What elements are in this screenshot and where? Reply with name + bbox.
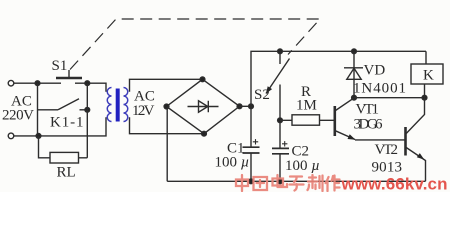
wire bottom rail left	[14, 117, 106, 136]
terminal top-left o	[8, 80, 14, 86]
svg-text:1M: 1M	[296, 98, 317, 114]
bridge rectifier diamond	[167, 79, 240, 133]
relay contact K1-1	[38, 99, 88, 110]
capacitor C1	[250, 106, 252, 181]
node bridge right vertex	[237, 104, 242, 109]
svg-text:3DG6: 3DG6	[354, 117, 384, 133]
relay coil K box	[425, 51, 427, 64]
terminal bottom-left o	[8, 133, 14, 139]
svg-text:VT1: VT1	[356, 102, 380, 118]
node bridge left vertex	[164, 104, 169, 109]
svg-text:VT2: VT2	[375, 142, 399, 158]
dashed mechanical linkage S1 to S2	[70, 19, 320, 70]
svg-text:K: K	[423, 68, 434, 84]
svg-text:www.66kv.cn: www.66kv.cn	[341, 175, 448, 193]
transformer T primary winding	[107, 88, 111, 122]
VT2 collector	[406, 98, 424, 134]
VT2 emitter with arrow	[406, 148, 425, 182]
svg-text:VD: VD	[364, 63, 386, 79]
bridge diode symbol	[188, 101, 219, 112]
transformer core	[116, 89, 120, 122]
svg-text:S1: S1	[52, 58, 68, 74]
switch S2 arm	[266, 59, 290, 94]
svg-text:12V: 12V	[132, 103, 155, 119]
wire left vertical A down	[37, 83, 39, 136]
switch S1 stem	[68, 70, 70, 77]
transistor VT1 base bar	[333, 106, 336, 136]
node C2 bottom rail dot	[278, 179, 283, 184]
svg-text:K1-1: K1-1	[50, 115, 84, 131]
resistor RL	[39, 136, 88, 158]
wire secondary top to bridge top vertex	[130, 79, 203, 91]
C1 polarity plus	[253, 139, 258, 144]
wire bridge right vertex to C1 node	[240, 105, 252, 107]
diode VD 1N4001	[353, 51, 355, 97]
wire positive riser and top rail	[251, 51, 426, 106]
VT1 emitter with arrow	[336, 131, 356, 140]
node bridge bottom vertex	[202, 131, 207, 136]
char zhong	[236, 175, 248, 191]
wire S2 lower line down through C2 to rail	[279, 85, 281, 182]
svg-text:100 µ: 100 µ	[215, 155, 250, 171]
switch S2 top stub	[279, 51, 281, 64]
svg-text:100 µ: 100 µ	[285, 158, 320, 174]
char zuo	[326, 176, 340, 192]
wire secondary bottom to bridge bottom vertex	[130, 117, 205, 133]
switch S2 arm arrowhead	[266, 86, 272, 93]
wire bottom DC rail	[167, 180, 425, 182]
wire right vertical B down to RL	[86, 83, 88, 158]
char dian	[273, 175, 288, 187]
wire S1 right contact to transformer primary top	[75, 83, 106, 92]
transformer T secondary winding	[124, 88, 128, 122]
capacitor C2	[272, 148, 289, 153]
svg-text:9013: 9013	[372, 160, 403, 176]
node R junction dot	[278, 118, 283, 123]
switch S1 pushbutton bar	[56, 77, 82, 80]
svg-text:1N4001: 1N4001	[353, 81, 406, 97]
C2 polarity plus	[282, 141, 287, 146]
node A junction dot left of S1	[35, 81, 40, 86]
svg-text:S2: S2	[254, 87, 270, 103]
wire VT1 emitter to VT2 base	[355, 139, 405, 141]
node VD top rail dot	[352, 49, 357, 54]
VT1 collector	[336, 98, 355, 111]
transistor VT2 base bar	[404, 127, 407, 156]
wire top from terminal to S1 left contact	[14, 82, 61, 84]
svg-text:RL: RL	[57, 164, 76, 180]
wire negative drop from left vertex to bottom rail	[166, 107, 168, 182]
watermark chinese characters	[236, 175, 340, 191]
resistor R 1M	[280, 119, 334, 121]
char zi	[290, 177, 304, 191]
wire collector rail VD to K	[354, 97, 425, 99]
node VD bottom junction dot	[352, 95, 357, 100]
node C1 bottom rail dot	[249, 179, 254, 184]
char zhi	[308, 175, 323, 191]
node B junction dot right of S1	[85, 81, 90, 86]
node C junction dot bottom	[36, 134, 41, 139]
svg-text:220V: 220V	[2, 108, 34, 124]
node C1 top junction dot	[249, 104, 254, 109]
node S2 top rail dot	[278, 49, 283, 54]
node K bottom junction dot	[422, 95, 427, 100]
char guo	[254, 177, 268, 190]
node bridge top vertex	[200, 77, 205, 82]
node K1-1 right contact dot	[85, 107, 90, 112]
